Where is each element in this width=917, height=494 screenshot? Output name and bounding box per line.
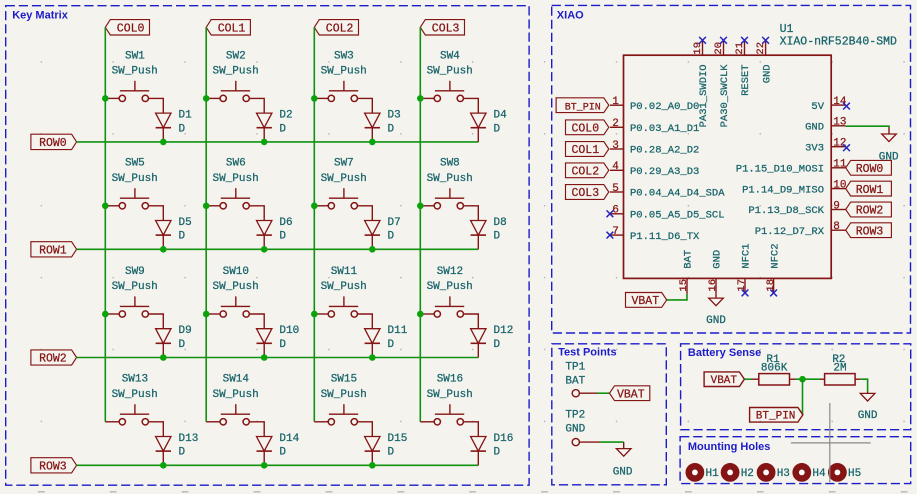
svg-text:D: D [494,447,501,459]
svg-text:14: 14 [833,96,847,108]
svg-text:P0.05_A5_D5_SCL: P0.05_A5_D5_SCL [630,210,725,222]
svg-text:SW6: SW6 [226,158,246,170]
global label COL2 [566,163,609,179]
svg-text:H3: H3 [777,468,790,480]
svg-text:P0.02_A0_D0: P0.02_A0_D0 [630,101,699,113]
svg-text:D: D [388,339,395,351]
wire SW7 to D7 [358,206,373,221]
wire SW4 to D4 [464,98,479,113]
svg-text:D11: D11 [388,325,408,337]
switch SW14 [206,374,259,425]
wire ROW0 [77,141,479,143]
diode D1 [156,110,193,142]
no-connect pin 7 [607,232,614,239]
svg-text:COL2: COL2 [326,23,354,36]
junction [311,203,318,210]
junction [203,203,210,210]
svg-text:PA31_SWDIO: PA31_SWDIO [698,64,710,127]
svg-text:D15: D15 [388,433,408,445]
global label COL2 [314,20,358,36]
svg-text:ROW2: ROW2 [39,353,67,366]
svg-text:D10: D10 [279,325,299,337]
diode D8 [471,217,507,249]
svg-text:P1.12_D7_RX: P1.12_D7_RX [755,226,825,238]
wire COL0 column [104,27,106,422]
svg-text:GND: GND [565,423,585,435]
junction [261,462,268,469]
svg-text:9: 9 [833,200,840,212]
wire pin15 to VBAT [667,294,687,300]
junction [160,462,167,469]
svg-text:SW8: SW8 [440,158,460,170]
mounting hole H4 [792,463,826,482]
U1 pin 3 P0.28_A2_D2 [610,140,699,157]
junction [102,203,109,210]
svg-text:COL0: COL0 [572,123,600,136]
svg-text:P1.14_D9_MISO: P1.14_D9_MISO [742,184,824,196]
svg-text:D: D [388,231,395,243]
global label ROW3 [31,458,77,474]
svg-text:1: 1 [612,96,619,108]
section box XIAO [552,5,911,333]
section box Key Matrix [6,6,529,486]
svg-text:D13: D13 [179,433,199,445]
svg-text:8: 8 [833,221,840,233]
svg-text:GND: GND [613,466,633,478]
wire SW15 to D15 [358,422,373,437]
svg-text:3V3: 3V3 [805,142,824,154]
svg-text:SW_Push: SW_Push [321,389,367,401]
switch SW7 [314,158,367,209]
U1 pin 22 GND [755,41,773,83]
svg-text:5V: 5V [811,101,824,113]
svg-text:SW_Push: SW_Push [321,281,367,293]
U1 pin 13 GND [805,117,846,134]
wire junction to BT_PIN [802,379,804,415]
svg-text:BAT: BAT [565,376,585,388]
wire SW12 to D12 [464,314,479,329]
junction [417,311,424,318]
no-connect pin 19 [699,37,706,44]
svg-text:Battery Sense: Battery Sense [688,347,761,359]
switch SW1 [105,50,158,101]
U1 pin 11 P1.15_D10_MOSI [736,159,847,176]
global label ROW3 [846,223,892,239]
switch SW12 [420,266,473,317]
junction [261,139,268,146]
svg-text:SW14: SW14 [223,374,250,386]
switch SW6 [206,158,259,209]
diode D7 [365,217,401,249]
svg-text:COL3: COL3 [432,23,460,36]
wire SW16 to D16 [464,422,479,437]
ground GND [879,128,899,164]
svg-text:15: 15 [678,279,690,292]
U1 pin 17 NFC1 [736,243,753,293]
svg-text:SW13: SW13 [122,374,148,386]
svg-text:U1: U1 [780,23,794,36]
wire SW1 to D1 [149,98,164,113]
switch SW8 [420,158,473,209]
junction [160,246,167,253]
svg-text:SW_Push: SW_Push [112,173,158,185]
junction [203,311,210,318]
svg-text:H2: H2 [741,468,754,480]
svg-text:P1.11_D6_TX: P1.11_D6_TX [630,231,700,243]
junction [369,246,376,253]
wire ROW2 [77,357,479,359]
no-connect pin 6 [607,210,614,217]
junction [102,95,109,102]
svg-text:Mounting Holes: Mounting Holes [688,441,771,453]
svg-text:SW9: SW9 [125,266,145,278]
wire COL3 column [419,27,421,422]
svg-text:SW_Push: SW_Push [112,66,158,78]
switch SW10 [206,266,259,317]
svg-text:XIAO: XIAO [557,10,584,22]
svg-text:VBAT: VBAT [711,375,738,387]
svg-text:806K: 806K [761,363,788,375]
diode D16 [471,433,514,465]
svg-text:BAT: BAT [683,250,695,269]
U1 pin 9 P1.13_D8_SCK [748,200,845,217]
junction [261,354,268,361]
svg-text:SW15: SW15 [331,374,357,386]
global label VBAT [626,293,667,309]
svg-text:SW2: SW2 [226,50,246,62]
svg-text:P0.03_A1_D1: P0.03_A1_D1 [630,123,699,135]
ground at pin 16 [706,294,726,327]
wire SW2 to D2 [249,98,264,113]
U1 pin 15 BAT [678,250,695,294]
svg-text:GND: GND [858,410,878,422]
svg-text:D: D [179,447,186,459]
diode D3 [365,110,401,142]
svg-text:SW_Push: SW_Push [427,281,473,293]
junction [311,95,318,102]
svg-text:10: 10 [833,179,846,191]
global label ROW0 [846,160,892,176]
no-connect pin 21 [741,37,748,44]
diode D6 [257,217,293,249]
svg-text:4: 4 [612,161,619,173]
global label ROW2 [31,350,77,366]
diode D14 [257,433,300,465]
svg-text:2: 2 [612,118,619,130]
svg-text:NFC1: NFC1 [741,243,753,268]
svg-text:16: 16 [707,279,719,292]
svg-text:P1.13_D8_SCK: P1.13_D8_SCK [748,205,824,217]
wire SW5 to D5 [149,206,164,221]
svg-text:5: 5 [612,183,619,195]
svg-text:GND: GND [805,122,824,134]
svg-text:ROW3: ROW3 [39,461,67,474]
switch SW3 [314,50,367,101]
svg-text:13: 13 [833,117,846,129]
junction [369,139,376,146]
svg-text:GND: GND [761,64,773,83]
wire TP2 to GND [600,441,624,443]
svg-text:ROW1: ROW1 [39,245,67,258]
wire R1 to R2 [796,378,821,380]
mounting hole H5 [828,463,861,482]
svg-text:SW12: SW12 [437,266,463,278]
svg-text:12: 12 [833,138,846,150]
svg-text:RESET: RESET [740,64,752,96]
svg-text:D: D [279,231,286,243]
wire SW9 to D9 [149,314,164,329]
wire ROW1 [77,248,479,250]
wire R2 to GND [860,379,867,391]
mounting hole H3 [757,463,790,482]
ground GND [613,442,633,478]
global label ROW2 [846,202,892,218]
svg-text:COL1: COL1 [572,144,600,157]
svg-text:D: D [179,339,186,351]
svg-text:D5: D5 [179,217,192,229]
U1 pin 2 P0.03_A1_D1 [610,118,699,135]
diode D2 [257,110,293,142]
global label COL1 [566,142,609,158]
section box Battery Sense [681,344,911,430]
svg-text:SW_Push: SW_Push [427,66,473,78]
global label COL3 [420,20,464,36]
wire pin13 to GND [846,126,889,127]
svg-text:P0.29_A3_D3: P0.29_A3_D3 [630,166,699,178]
wire TP1 to VBAT [597,392,610,394]
svg-text:SW16: SW16 [437,374,463,386]
svg-text:GND: GND [712,250,724,269]
wire VBAT to R1 [744,378,751,380]
svg-text:D7: D7 [388,217,401,229]
svg-text:D1: D1 [179,110,193,122]
svg-text:BT_PIN: BT_PIN [756,411,796,423]
svg-text:D9: D9 [179,325,192,337]
U1 pin 4 P0.29_A3_D3 [610,161,699,178]
switch SW4 [420,50,473,101]
svg-text:TP1: TP1 [565,361,585,373]
U1 pin 8 P1.12_D7_RX [755,221,846,238]
U1 pin 12 3V3 [805,138,846,155]
global label BT_PIN [750,408,803,423]
global label COL3 [566,185,609,201]
junction [261,246,268,253]
svg-text:SW_Push: SW_Push [212,66,258,78]
wire SW6 to D6 [249,206,264,221]
switch SW11 [314,266,367,317]
U1 pin 20 PA30_SWCLK [713,41,731,127]
wire SW10 to D10 [249,314,264,329]
svg-text:GND: GND [706,315,726,327]
svg-text:D2: D2 [279,110,292,122]
svg-text:XIAO-nRF52B40-SMD: XIAO-nRF52B40-SMD [780,36,897,49]
svg-text:SW_Push: SW_Push [427,173,473,185]
svg-text:SW1: SW1 [125,50,145,62]
svg-text:SW7: SW7 [334,158,354,170]
no-connect pin 20 [720,37,727,44]
svg-text:COL1: COL1 [218,23,246,36]
svg-text:SW10: SW10 [223,266,249,278]
diode D11 [365,325,408,357]
svg-text:VBAT: VBAT [632,295,660,308]
wire SW3 to D3 [358,98,373,113]
svg-text:D3: D3 [388,110,401,122]
U1 pin 16 GND [707,250,724,294]
svg-text:SW_Push: SW_Push [321,66,367,78]
no-connect pin 14 [843,103,850,110]
svg-text:H5: H5 [848,468,861,480]
svg-text:SW_Push: SW_Push [321,173,367,185]
svg-text:NFC2: NFC2 [769,243,781,268]
svg-text:D: D [388,123,395,135]
svg-text:Test Points: Test Points [558,347,616,359]
svg-text:D: D [279,123,286,135]
U1 pin 14 5V [811,96,847,113]
svg-text:2M: 2M [833,363,846,375]
test point TP2 GND [565,410,600,446]
svg-text:Key Matrix: Key Matrix [12,9,69,21]
svg-text:D4: D4 [494,110,508,122]
global label VBAT [704,372,744,387]
svg-text:P0.28_A2_D2: P0.28_A2_D2 [630,145,699,157]
svg-text:COL2: COL2 [572,166,600,179]
switch SW5 [105,158,158,209]
junction [417,95,424,102]
switch SW9 [105,266,158,317]
svg-text:SW_Push: SW_Push [112,281,158,293]
svg-text:ROW2: ROW2 [856,205,884,218]
svg-text:ROW1: ROW1 [856,184,884,197]
global label ROW1 [31,242,77,258]
svg-text:SW11: SW11 [331,266,358,278]
svg-text:D8: D8 [494,217,507,229]
wire COL1 column [205,27,207,422]
svg-text:D: D [279,447,286,459]
svg-text:D: D [494,123,501,135]
junction [160,354,167,361]
svg-text:3: 3 [612,140,619,152]
resistor R2 2M [820,354,860,385]
svg-text:SW_Push: SW_Push [112,389,158,401]
svg-text:SW_Push: SW_Push [212,389,258,401]
global label COL0 [105,20,149,36]
junction [369,462,376,469]
section box Mounting Holes [680,437,911,484]
U1 pin 5 P0.04_A4_D4_SDA [610,183,725,200]
svg-text:VBAT: VBAT [617,388,645,401]
switch SW2 [206,50,259,101]
junction [160,139,167,146]
wire SW13 to D13 [149,422,164,437]
junction [417,203,424,210]
diode D4 [471,110,508,142]
global label COL1 [206,20,250,36]
svg-text:D: D [279,339,286,351]
no-connect pin 18 [770,290,777,297]
switch SW13 [105,374,158,425]
svg-text:GND: GND [879,152,899,164]
junction [203,95,210,102]
test point TP1 BAT [565,361,597,397]
junction [311,311,318,318]
wire SW14 to D14 [249,422,264,437]
svg-text:SW3: SW3 [334,50,354,62]
svg-text:SW_Push: SW_Push [212,281,258,293]
U1 pin 10 P1.14_D9_MISO [742,179,846,196]
svg-text:SW_Push: SW_Push [212,173,258,185]
U1 pin 7 P1.11_D6_TX [610,226,700,243]
svg-text:SW4: SW4 [440,50,460,62]
global label ROW0 [31,134,77,150]
svg-text:D: D [494,339,501,351]
U1 pin 1 P0.02_A0_D0 [610,96,699,113]
switch SW15 [314,374,367,425]
svg-text:COL3: COL3 [572,187,600,200]
wire SW8 to D8 [464,206,479,221]
diode D12 [471,325,514,357]
svg-text:ROW0: ROW0 [856,163,884,176]
svg-text:D16: D16 [494,433,514,445]
global label VBAT [610,386,650,402]
no-connect pin 12 [843,144,850,151]
ground GND [858,391,878,422]
svg-text:11: 11 [833,159,847,171]
svg-text:COL0: COL0 [117,23,145,36]
cursor crosshair [791,403,871,482]
junction [102,311,109,318]
svg-text:PA30_SWCLK: PA30_SWCLK [719,64,731,128]
svg-text:ROW3: ROW3 [856,225,884,238]
svg-text:P1.15_D10_MOSI: P1.15_D10_MOSI [736,164,824,176]
U1 pin 6 P0.05_A5_D5_SCL [610,205,725,222]
diode D15 [365,433,408,465]
svg-text:22: 22 [755,42,767,55]
svg-text:P0.04_A4_D4_SDA: P0.04_A4_D4_SDA [630,188,725,200]
diode D13 [156,433,199,465]
wire SW11 to D11 [358,314,373,329]
junction node BT_PIN [799,376,806,383]
diode D5 [156,217,192,249]
junction [369,354,376,361]
svg-text:D: D [179,231,186,243]
IC U1 XIAO-nRF52B40-SMD [624,23,898,279]
resistor R1 806K [752,354,796,385]
svg-text:H4: H4 [812,468,826,480]
U1 pin 18 NFC2 [765,243,782,293]
wire COL2 column [313,27,315,422]
svg-text:D12: D12 [494,325,514,337]
svg-text:ROW0: ROW0 [39,137,67,150]
svg-text:SW5: SW5 [125,158,145,170]
diode D9 [156,325,192,357]
U1 pin 21 RESET [734,41,752,96]
global label BT_PIN [556,98,609,114]
mounting hole H2 [721,463,754,482]
svg-text:H1: H1 [706,468,720,480]
svg-text:TP2: TP2 [565,410,585,422]
wire ROW3 [77,464,479,466]
svg-text:D: D [179,123,186,135]
svg-text:19: 19 [692,42,704,55]
svg-text:20: 20 [713,42,725,55]
svg-text:D: D [388,447,395,459]
svg-text:D: D [494,231,501,243]
U1 pin 19 PA31_SWDIO [692,41,710,127]
switch SW16 [420,374,473,425]
svg-text:D6: D6 [279,217,292,229]
no-connect pin 22 [762,37,769,44]
section box Test Points [552,344,667,485]
